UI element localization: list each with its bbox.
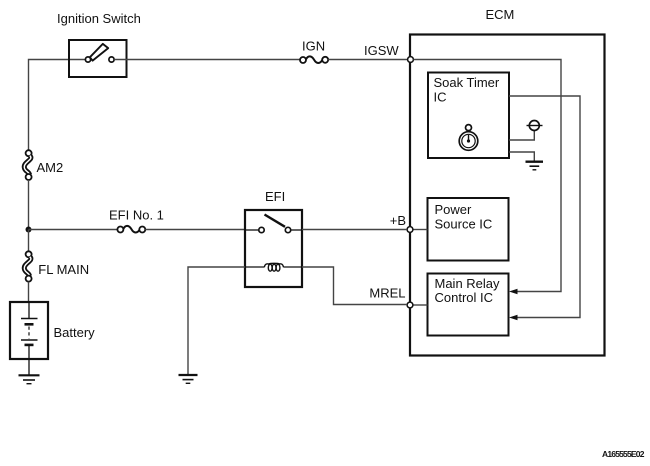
battery cells xyxy=(21,302,38,375)
svg-text:IGSW: IGSW xyxy=(364,43,399,58)
wire soak timer box to ECM ground xyxy=(509,152,534,161)
svg-text:Battery: Battery xyxy=(54,325,96,340)
arrowhead into Main Relay Control IC (lower) xyxy=(509,315,518,321)
svg-text:FL MAIN: FL MAIN xyxy=(38,262,89,277)
svg-text:AM2: AM2 xyxy=(37,160,64,175)
ECM box xyxy=(410,35,605,356)
relay coil xyxy=(245,263,302,271)
node +B xyxy=(407,227,413,233)
svg-text:IC: IC xyxy=(434,90,447,105)
wire left bus to ignition switch xyxy=(29,60,86,151)
wire junction to FL MAIN xyxy=(28,230,30,252)
fusible link FL MAIN xyxy=(24,251,31,281)
battery box xyxy=(10,302,48,359)
fuse EFI No. 1 xyxy=(117,226,145,233)
svg-text:Power: Power xyxy=(435,202,473,217)
wire EFI No.1 fuse to EFI relay xyxy=(145,229,245,231)
ignition switch contacts xyxy=(85,57,114,62)
fusible link AM2 xyxy=(24,150,31,180)
svg-text:Control IC: Control IC xyxy=(435,290,494,305)
svg-text:A165555E02: A165555E02 xyxy=(602,449,645,459)
wire MREL node to Main Relay Control IC xyxy=(413,304,428,306)
wire IGSW node to inner vertical line 1 xyxy=(413,60,561,292)
ground inside ECM xyxy=(526,162,544,170)
svg-text:MREL: MREL xyxy=(369,286,405,301)
wire junction to EFI No.1 fuse xyxy=(29,229,118,231)
ignition switch lever xyxy=(90,44,108,61)
node MREL xyxy=(407,302,413,308)
fuse IGN xyxy=(300,56,328,63)
box Power Source IC xyxy=(428,198,509,261)
wire relay coil to MREL node xyxy=(302,267,407,305)
wire +B node to Power Source IC xyxy=(413,229,428,231)
wire AM2 to junction xyxy=(28,180,30,230)
relay EFI box xyxy=(245,210,302,287)
ground battery xyxy=(19,375,40,383)
wire relay coil to ground xyxy=(188,267,245,375)
svg-text:IGN: IGN xyxy=(302,39,325,54)
wire relay switch to +B node xyxy=(302,229,407,231)
wire FL MAIN to battery xyxy=(28,282,30,302)
wire soak timer box to terminal symbol xyxy=(509,131,534,141)
svg-text:Ignition Switch: Ignition Switch xyxy=(57,11,141,26)
svg-text:Soak Timer: Soak Timer xyxy=(434,75,500,90)
ground relay coil xyxy=(179,375,198,383)
svg-text:EFI: EFI xyxy=(265,189,285,204)
terminal symbol (circle with bar) xyxy=(527,121,543,131)
svg-text:Source IC: Source IC xyxy=(435,217,493,232)
wire ignition switch to IGN fuse xyxy=(114,59,300,61)
relay switch contacts xyxy=(245,215,302,233)
soak timer stopwatch icon xyxy=(459,125,478,151)
svg-text:Main Relay: Main Relay xyxy=(435,276,501,291)
node IGSW xyxy=(408,57,414,63)
box Main Relay Control IC xyxy=(428,274,509,336)
ignition switch box SW1 xyxy=(69,40,127,77)
svg-text:ECM: ECM xyxy=(486,7,515,22)
svg-text:EFI No. 1: EFI No. 1 xyxy=(109,208,164,223)
wire soak timer box to inner vertical line 2 xyxy=(509,96,580,318)
arrowhead into Main Relay Control IC (upper) xyxy=(509,289,518,295)
box Soak Timer IC xyxy=(428,73,509,159)
svg-text:+B: +B xyxy=(390,213,406,228)
wire IGN fuse to IGSW node xyxy=(328,59,408,61)
junction node xyxy=(26,227,32,233)
